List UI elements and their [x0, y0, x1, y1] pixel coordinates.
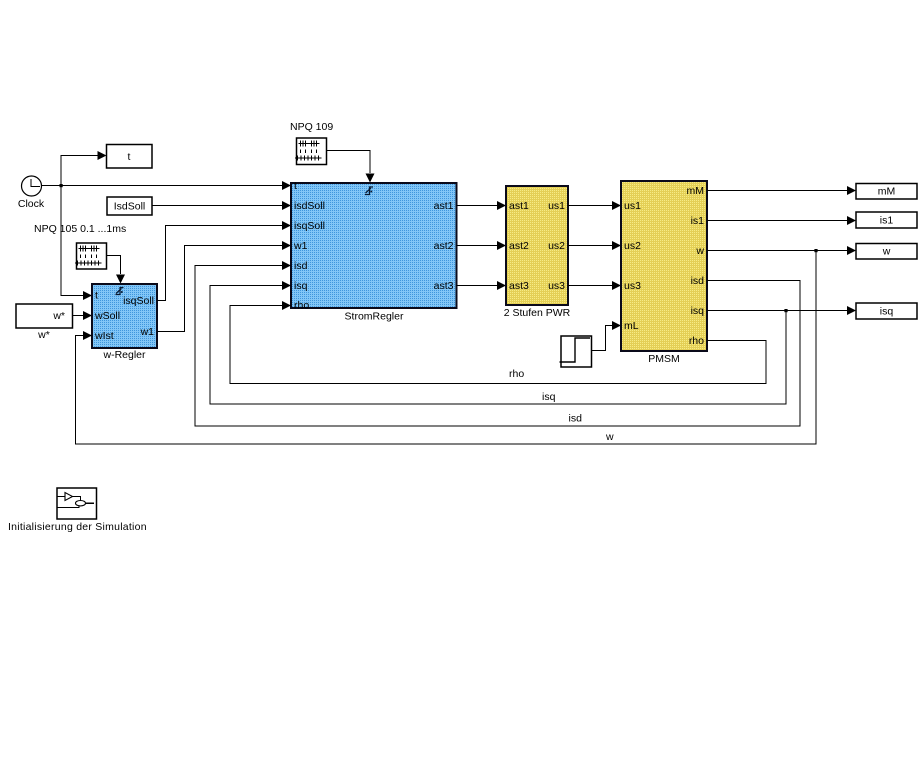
svg-text:w1: w1 — [140, 326, 155, 338]
svg-text:isd: isd — [294, 260, 308, 272]
svg-text:wSoll: wSoll — [94, 310, 120, 322]
svg-text:rho: rho — [689, 335, 704, 347]
svg-text:w: w — [695, 245, 704, 257]
wire StromRegler ast3 to PWR — [457, 281, 507, 290]
svg-text:PMSM: PMSM — [648, 353, 680, 365]
svg-text:isdSoll: isdSoll — [294, 200, 325, 212]
subsystem 2 Stufen PWR — [504, 186, 571, 319]
svg-text:mM: mM — [687, 185, 705, 197]
subsystem PMSM — [621, 181, 707, 365]
wire step to PMSM mL — [592, 321, 622, 351]
svg-text:ast3: ast3 — [434, 280, 454, 292]
block t (To Workspace) — [107, 145, 153, 169]
svg-text:mM: mM — [878, 186, 896, 198]
svg-text:2 Stufen PWR: 2 Stufen PWR — [504, 307, 571, 319]
block IsdSoll — [107, 197, 152, 215]
svg-text:w*: w* — [37, 329, 50, 341]
svg-text:ast2: ast2 — [434, 240, 454, 252]
wire branch Clock to t block — [61, 151, 107, 186]
subsystem StromRegler — [291, 180, 457, 323]
svg-text:is1: is1 — [691, 215, 705, 227]
svg-text:Initialisierung der Simulation: Initialisierung der Simulation — [8, 521, 147, 533]
svg-text:us1: us1 — [624, 200, 641, 212]
wire PMSM is1 to out block is1 — [707, 216, 856, 225]
svg-text:w-Regler: w-Regler — [102, 349, 146, 361]
svg-text:ast3: ast3 — [509, 280, 529, 292]
svg-text:us3: us3 — [548, 280, 565, 292]
svg-text:isqSoll: isqSoll — [294, 220, 325, 232]
wire PMSM rho feedback to StromRegler rho — [230, 301, 766, 384]
svg-text:is1: is1 — [880, 215, 894, 227]
wire PWR us2 to PMSM — [568, 241, 621, 250]
svg-text:isq: isq — [691, 305, 705, 317]
step source for mL — [560, 336, 592, 367]
wire PWR us1 to PMSM — [568, 201, 621, 210]
svg-text:Clock: Clock — [18, 198, 45, 210]
wire w-Regler w1 to StromRegler w1 — [157, 241, 291, 332]
svg-text:rho: rho — [509, 368, 524, 380]
svg-text:NPQ 109: NPQ 109 — [290, 121, 333, 133]
subsystem w-Regler — [92, 284, 157, 361]
wire Clock to StromRegler input t — [42, 181, 292, 190]
wire StromRegler ast1 to PWR — [457, 201, 507, 210]
svg-text:wIst: wIst — [94, 330, 114, 342]
svg-text:w: w — [882, 246, 891, 258]
svg-text:w: w — [605, 431, 614, 443]
svg-text:mL: mL — [624, 320, 639, 332]
svg-text:isd: isd — [691, 275, 705, 287]
svg-text:us1: us1 — [548, 200, 565, 212]
wire NPQ 109 to StromRegler trigger — [327, 151, 375, 183]
svg-text:w1: w1 — [293, 240, 308, 252]
wire PMSM mM to out block mM — [707, 186, 856, 195]
svg-text:ast2: ast2 — [509, 240, 529, 252]
wire StromRegler ast2 to PWR — [457, 241, 507, 250]
svg-text:us3: us3 — [624, 280, 641, 292]
svg-text:us2: us2 — [624, 240, 641, 252]
svg-text:ast1: ast1 — [434, 200, 454, 212]
out block isq — [856, 303, 917, 319]
wire w* to w-Regler wSoll — [73, 311, 93, 320]
svg-text:t: t — [95, 290, 98, 302]
svg-text:isd: isd — [569, 413, 583, 425]
out block mM — [856, 184, 917, 200]
wire PMSM w to out block w and feedback to w-Regler wIst — [76, 246, 857, 444]
svg-text:StromRegler: StromRegler — [345, 311, 404, 323]
wire PWR us3 to PMSM — [568, 281, 621, 290]
svg-text:ast1: ast1 — [509, 200, 529, 212]
wire branch Clock to w-Regler input t — [61, 186, 92, 301]
svg-text:NPQ 105 0.1 ...1ms: NPQ 105 0.1 ...1ms — [34, 223, 126, 235]
wire IsdSoll to StromRegler isdSoll — [152, 201, 291, 210]
block Initialisierung der Simulation — [8, 488, 147, 533]
wire PMSM isq to out block isq and feedback to StromRegler isq — [210, 281, 856, 404]
svg-text:rho: rho — [294, 300, 309, 312]
svg-text:t: t — [128, 151, 131, 163]
svg-text:w*: w* — [52, 310, 65, 322]
wire PMSM isd feedback to StromRegler isd — [195, 261, 800, 426]
pulse generator NPQ 109 — [295, 138, 327, 165]
svg-text:isq: isq — [880, 306, 894, 318]
svg-text:us2: us2 — [548, 240, 565, 252]
wire NPQ 105 to w-Regler trigger — [107, 256, 126, 284]
pulse generator NPQ 105 — [75, 243, 107, 269]
svg-text:IsdSoll: IsdSoll — [114, 201, 146, 213]
out block is1 — [856, 212, 917, 228]
svg-text:isq: isq — [542, 391, 556, 403]
clock source Clock — [18, 176, 45, 210]
wire w-Regler isqSoll to StromRegler isqSoll — [157, 221, 291, 301]
svg-text:isqSoll: isqSoll — [123, 295, 154, 307]
out block w — [856, 244, 917, 260]
svg-text:t: t — [294, 180, 297, 192]
block w* constant — [16, 304, 73, 341]
svg-text:isq: isq — [294, 280, 308, 292]
